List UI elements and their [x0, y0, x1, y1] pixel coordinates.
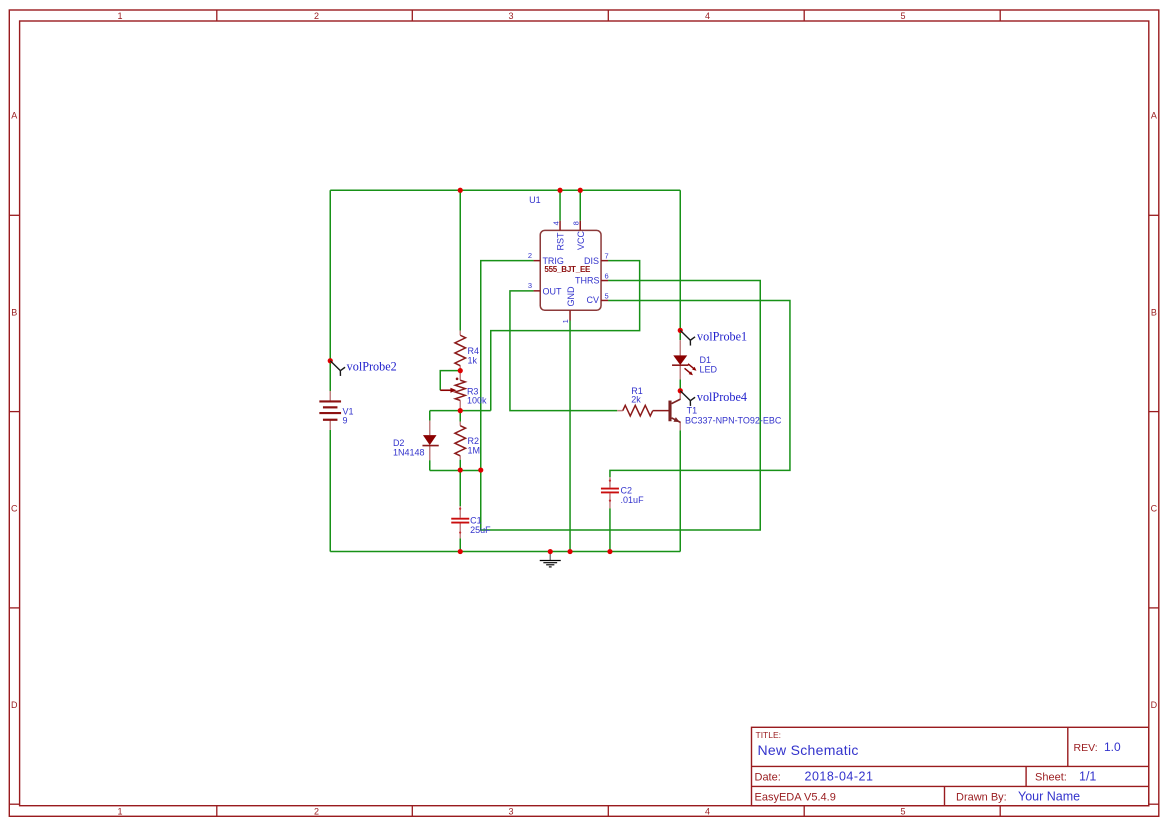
svg-text:D: D — [1151, 700, 1158, 710]
svg-text:volProbe2: volProbe2 — [347, 360, 397, 374]
svg-text:RST: RST — [555, 232, 565, 251]
svg-text:4: 4 — [705, 11, 710, 21]
svg-text:5: 5 — [900, 11, 905, 21]
svg-text:T1: T1 — [687, 405, 698, 415]
svg-text:1M: 1M — [468, 445, 481, 455]
svg-text:4: 4 — [551, 221, 560, 225]
svg-text:C1: C1 — [470, 516, 482, 526]
svg-text:volProbe4: volProbe4 — [697, 390, 747, 404]
svg-text:LED: LED — [700, 364, 718, 374]
svg-text:C: C — [11, 504, 18, 514]
svg-text:VCC: VCC — [576, 230, 586, 250]
svg-text:1k: 1k — [468, 355, 478, 365]
svg-text:A: A — [1151, 111, 1157, 121]
svg-text:3: 3 — [508, 11, 513, 21]
svg-text:2k: 2k — [631, 395, 641, 405]
svg-text:OUT: OUT — [542, 286, 562, 296]
svg-text:1N4148: 1N4148 — [393, 448, 425, 458]
svg-text:BC337-NPN-TO92-EBC: BC337-NPN-TO92-EBC — [685, 415, 782, 425]
svg-text:.01uF: .01uF — [621, 495, 645, 505]
svg-text:1.0: 1.0 — [1104, 740, 1121, 754]
svg-text:REV:: REV: — [1074, 742, 1098, 754]
svg-text:C: C — [1151, 504, 1158, 514]
svg-text:D1: D1 — [700, 355, 712, 365]
svg-text:8: 8 — [572, 221, 581, 225]
svg-text:2: 2 — [528, 251, 532, 260]
svg-text:5: 5 — [900, 807, 905, 817]
svg-text:3: 3 — [508, 807, 513, 817]
svg-text:Drawn By:: Drawn By: — [956, 792, 1007, 804]
svg-text:3: 3 — [528, 281, 532, 290]
svg-text:CV: CV — [587, 295, 600, 305]
svg-text:TITLE:: TITLE: — [756, 730, 782, 740]
svg-text:25uF: 25uF — [470, 525, 491, 535]
svg-text:A: A — [11, 111, 17, 121]
svg-text:U1: U1 — [529, 195, 541, 205]
svg-text:555_BJT_EE: 555_BJT_EE — [544, 265, 591, 274]
svg-text:volProbe1: volProbe1 — [697, 330, 747, 344]
svg-text:7: 7 — [605, 251, 609, 260]
svg-text:1/1: 1/1 — [1079, 769, 1096, 783]
svg-text:Date:: Date: — [755, 771, 781, 783]
svg-text:4: 4 — [705, 807, 710, 817]
svg-text:Sheet:: Sheet: — [1035, 771, 1067, 783]
svg-text:New Schematic: New Schematic — [758, 742, 859, 758]
svg-text:9: 9 — [343, 415, 348, 425]
svg-text:D2: D2 — [393, 438, 405, 448]
svg-text:D: D — [11, 700, 18, 710]
svg-text:EasyEDA V5.4.9: EasyEDA V5.4.9 — [755, 792, 836, 804]
svg-text:Your Name: Your Name — [1018, 790, 1080, 804]
svg-text:100k: 100k — [467, 396, 487, 406]
svg-text:GND: GND — [566, 286, 576, 307]
svg-text:C2: C2 — [621, 485, 633, 495]
svg-text:1: 1 — [117, 11, 122, 21]
svg-text:2: 2 — [314, 11, 319, 21]
svg-text:2018-04-21: 2018-04-21 — [805, 769, 874, 783]
svg-text:THRS: THRS — [575, 276, 600, 286]
svg-text:6: 6 — [605, 271, 609, 280]
svg-text:5: 5 — [605, 291, 609, 300]
svg-text:2: 2 — [314, 807, 319, 817]
svg-text:B: B — [1151, 308, 1157, 318]
svg-text:1: 1 — [561, 319, 570, 323]
svg-text:1: 1 — [117, 807, 122, 817]
svg-text:B: B — [11, 308, 17, 318]
